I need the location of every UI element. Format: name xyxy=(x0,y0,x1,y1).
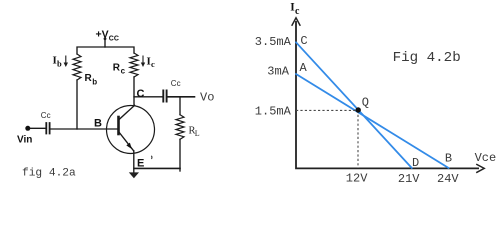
svg-text:Q: Q xyxy=(362,96,369,110)
svg-text:c: c xyxy=(151,59,155,69)
svg-text:R: R xyxy=(113,63,121,74)
svg-text:c: c xyxy=(295,6,300,17)
svg-text:L: L xyxy=(195,129,200,138)
svg-text:A: A xyxy=(300,61,308,75)
svg-text:3.5mA: 3.5mA xyxy=(255,35,292,49)
svg-text:D: D xyxy=(412,156,419,170)
svg-text:3mA: 3mA xyxy=(267,64,289,78)
svg-text:B: B xyxy=(94,118,102,130)
svg-text:21V: 21V xyxy=(398,172,420,186)
svg-text:Vce: Vce xyxy=(475,151,497,165)
svg-text:Cc: Cc xyxy=(41,111,51,120)
svg-text:Cc: Cc xyxy=(171,79,181,88)
svg-text:E: E xyxy=(137,158,144,170)
svg-text:fig 4.2a: fig 4.2a xyxy=(22,168,76,180)
svg-text:b: b xyxy=(92,77,97,86)
svg-text:Vin: Vin xyxy=(17,135,32,146)
svg-text:Fig 4.2b: Fig 4.2b xyxy=(393,50,461,66)
svg-text:C: C xyxy=(300,34,307,48)
svg-text:24V: 24V xyxy=(437,172,459,186)
svg-text:Vo: Vo xyxy=(200,91,214,105)
svg-text:+V: +V xyxy=(96,29,109,41)
svg-text:B: B xyxy=(445,151,452,165)
svg-text:b: b xyxy=(57,59,62,69)
svg-text:R: R xyxy=(85,73,93,84)
svg-text:CC: CC xyxy=(109,36,119,43)
svg-text:C: C xyxy=(137,88,145,100)
svg-text:1.5mA: 1.5mA xyxy=(255,105,292,119)
svg-text:12V: 12V xyxy=(346,171,368,185)
svg-text:c: c xyxy=(121,67,126,76)
